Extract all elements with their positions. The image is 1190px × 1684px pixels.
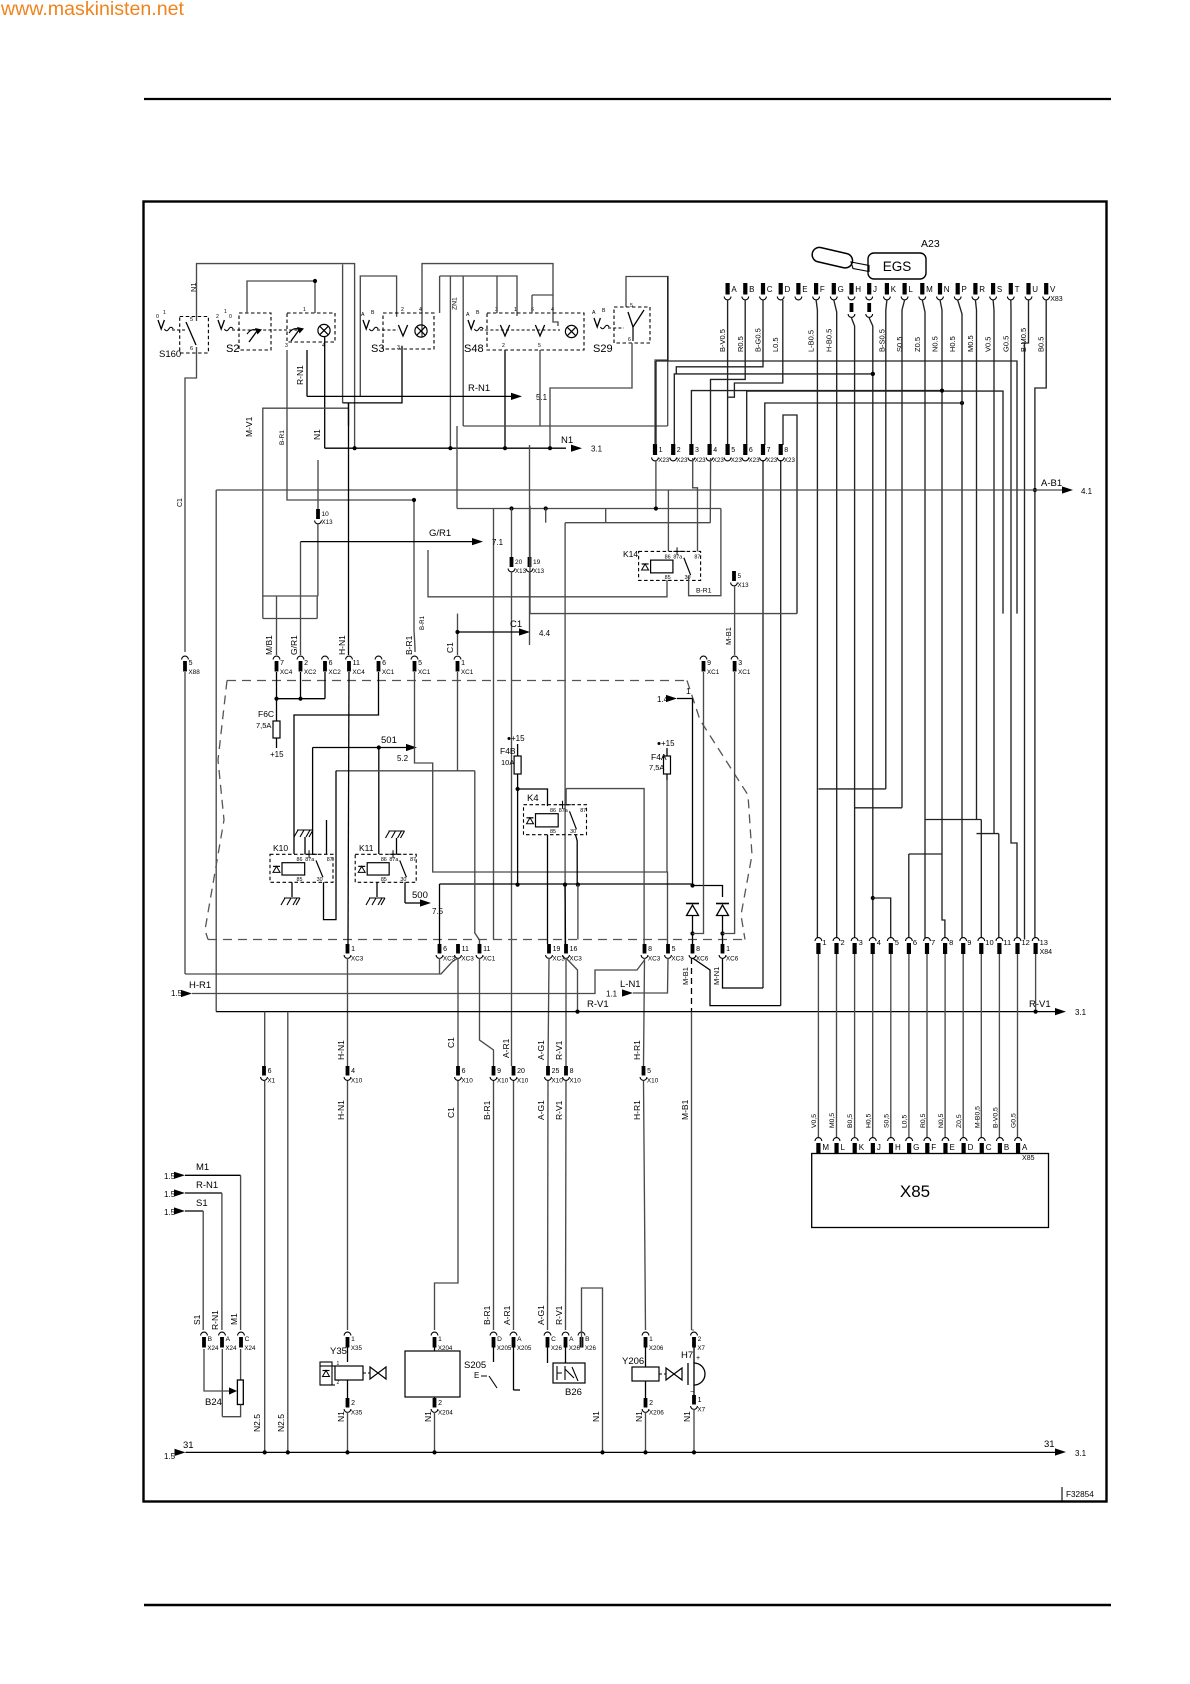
svg-text:1: 1	[514, 307, 517, 313]
svg-text:M-V1: M-V1	[244, 416, 254, 437]
relay K10	[270, 854, 333, 882]
svg-text:2: 2	[351, 1400, 355, 1407]
connector pin 16/XC3	[564, 944, 568, 954]
svg-text:S205: S205	[464, 1360, 486, 1371]
lamp in S3	[415, 325, 427, 337]
svg-text:XC2: XC2	[328, 669, 341, 676]
svg-text:N0,5: N0,5	[938, 1113, 945, 1128]
connector pin 11/XC3	[456, 944, 460, 954]
connector pin 1/XC3	[346, 944, 350, 954]
svg-text:L0,5: L0,5	[902, 1115, 909, 1128]
connector pin A/X24	[219, 1332, 226, 1335]
wire ZN1 drop	[449, 276, 451, 448]
K11-30 wire to 500 arrow	[404, 882, 406, 903]
svg-text:X88: X88	[188, 669, 200, 676]
svg-text:X13: X13	[322, 519, 334, 526]
wire R-N1 from S2	[306, 350, 308, 396]
svg-text:M-B1: M-B1	[681, 967, 690, 985]
dashed link line S2	[232, 329, 300, 331]
wire X23-8 fed from fan line 415	[783, 415, 797, 614]
svg-text:2: 2	[401, 307, 404, 313]
switch S160	[158, 320, 164, 329]
svg-text:1.5: 1.5	[164, 1172, 176, 1181]
connector pin 8/XC3	[643, 944, 647, 954]
svg-text:1: 1	[351, 946, 355, 953]
connector pin 5/XC1	[411, 656, 418, 659]
svg-text:19: 19	[533, 559, 541, 566]
dashed boundary box top edge	[227, 680, 600, 682]
svg-text:R0,5: R0,5	[920, 1113, 927, 1128]
svg-text:16: 16	[570, 946, 578, 953]
svg-text:7.1: 7.1	[492, 538, 504, 547]
svg-text:87a: 87a	[673, 554, 682, 560]
svg-text:2: 2	[438, 1400, 442, 1407]
svg-text:N2.5: N2.5	[276, 1414, 286, 1432]
svg-text:1.1: 1.1	[606, 990, 618, 999]
riser 457 from 426 line	[456, 426, 458, 509]
svg-text:X7: X7	[697, 1407, 705, 1414]
svg-text:A-R1: A-R1	[502, 1305, 512, 1325]
connector pin 9/X10	[492, 1066, 496, 1076]
svg-text:XC3: XC3	[461, 956, 474, 963]
svg-text:X13: X13	[533, 568, 545, 575]
svg-text:Z0.5: Z0.5	[913, 337, 922, 352]
svg-text:XC4: XC4	[352, 669, 365, 676]
relay K11	[355, 854, 416, 882]
svg-text:G0,5: G0,5	[1011, 1113, 1018, 1128]
wire X23-1 fed	[655, 361, 657, 445]
svg-text:Z0,5: Z0,5	[956, 1114, 963, 1128]
wire K4-30 down	[576, 835, 578, 886]
wire R-V1 to X26-A	[565, 1081, 568, 1330]
wires down to X24	[240, 1175, 242, 1330]
svg-text:L: L	[908, 285, 913, 294]
svg-text:L: L	[841, 1143, 846, 1152]
step 833 to X84-11	[977, 833, 999, 835]
connector X23 pin row	[653, 444, 657, 455]
K10-30 loop	[324, 771, 337, 920]
svg-text:J: J	[873, 285, 877, 294]
svg-text:X26: X26	[585, 1345, 597, 1352]
switch S29 dashed box	[614, 307, 650, 343]
wire S3-3 drop to H-N1	[343, 346, 402, 403]
wire S48 stub6	[531, 295, 533, 313]
svg-text:86: 86	[550, 808, 556, 814]
title block separator	[1061, 1487, 1063, 1502]
wire X23-1 drop to dot rail	[655, 460, 657, 509]
wire upper link row2 right to S29 and X23-1	[626, 277, 668, 446]
valve symbol Y206	[666, 1368, 682, 1380]
wire C1 net to 4.4	[457, 614, 459, 655]
svg-text:X23: X23	[658, 457, 670, 464]
wire H-N1 XC4-11 to XC3-1	[348, 672, 349, 944]
svg-text:7,5A: 7,5A	[649, 763, 664, 772]
wire F4B to K4-86	[518, 789, 548, 806]
svg-text:4: 4	[351, 1068, 355, 1075]
svg-text:M-B1: M-B1	[724, 627, 733, 645]
svg-text:X13: X13	[738, 582, 750, 589]
svg-text:87: 87	[580, 808, 586, 814]
svg-text:XC1: XC1	[483, 956, 496, 963]
svg-text:H0.5: H0.5	[948, 336, 957, 352]
svg-text:10: 10	[985, 938, 993, 947]
svg-text:30: 30	[570, 829, 576, 835]
svg-text:8: 8	[784, 447, 788, 454]
svg-text:X85: X85	[900, 1182, 930, 1201]
wire XC6-1 path up at 763	[723, 958, 764, 988]
connector pin 11/XC4	[346, 656, 353, 659]
wire 493 column down	[493, 509, 495, 940]
sensor B26	[553, 1363, 585, 1383]
wire X13-19 down stub	[529, 572, 531, 645]
svg-text:H-R1: H-R1	[632, 1040, 642, 1060]
svg-text:M/B1: M/B1	[264, 635, 274, 655]
wire S205 to ground bus	[434, 1412, 436, 1452]
wire X83-T to X84-12	[1011, 300, 1017, 938]
wire B-R1 to X205-D	[493, 1081, 495, 1330]
svg-text:X10: X10	[569, 1078, 581, 1085]
connector X84 pin row	[815, 938, 822, 941]
svg-text:5: 5	[731, 447, 735, 454]
svg-text:B-R1: B-R1	[696, 588, 712, 595]
svg-text:K: K	[891, 285, 897, 294]
svg-text:S0.5: S0.5	[895, 337, 904, 352]
svg-text:4: 4	[419, 307, 422, 313]
ground above K11	[386, 831, 405, 838]
svg-text:X23: X23	[676, 457, 688, 464]
svg-text:B-V0.5: B-V0.5	[718, 329, 727, 352]
svg-text:X23: X23	[749, 457, 761, 464]
svg-text:X204: X204	[438, 1410, 453, 1417]
svg-text:A-G1: A-G1	[536, 1040, 546, 1060]
svg-text:87: 87	[410, 857, 416, 863]
wire N1 lamp drop S2	[324, 336, 326, 448]
wire F4A down to rail 873	[666, 780, 668, 872]
svg-text:87: 87	[694, 554, 700, 560]
switch S2 selector symbol	[218, 320, 224, 329]
svg-text:X85: X85	[1022, 1155, 1035, 1162]
K10 ground stem	[291, 882, 293, 897]
wire X88 line to XC3-11	[185, 958, 458, 974]
svg-text:H-N1: H-N1	[336, 1100, 346, 1120]
svg-text:5: 5	[895, 938, 899, 947]
svg-text:N1: N1	[561, 435, 573, 446]
svg-text:3: 3	[285, 343, 288, 349]
wire junction S2 lamp top	[313, 279, 317, 283]
svg-text:N1: N1	[682, 1411, 692, 1422]
svg-text:K14: K14	[623, 549, 638, 559]
connector pin 20/X13	[510, 557, 514, 567]
wire under D1	[692, 916, 694, 945]
svg-text:F: F	[931, 1143, 936, 1152]
svg-text:85: 85	[550, 829, 556, 835]
svg-text:H-R1: H-R1	[189, 980, 211, 991]
svg-text:C: C	[551, 1336, 556, 1343]
wire G/R1 vertical	[300, 542, 302, 596]
connector pin 1/XC6	[721, 944, 725, 954]
wire N2.5 right leg	[287, 1012, 289, 1452]
wire X23-7 fed from fan line 403	[765, 403, 962, 445]
svg-text:G0.5: G0.5	[1001, 336, 1010, 352]
svg-text:K10: K10	[273, 843, 288, 853]
wire B-R1 from S2 down	[287, 350, 415, 652]
svg-text:B-R1: B-R1	[419, 615, 426, 630]
svg-text:86: 86	[296, 857, 302, 863]
svg-text:2: 2	[698, 1336, 702, 1343]
svg-text:3: 3	[397, 345, 400, 351]
ground under K11	[366, 898, 385, 905]
svg-text:H: H	[855, 285, 861, 294]
dashed boundary box bottom edge	[208, 939, 745, 941]
wire X83-K ends at step 789	[886, 300, 887, 789]
wire X13-20 down to X10-20	[511, 572, 513, 1066]
connector pin A/X205	[510, 1332, 517, 1335]
relay K4	[524, 805, 587, 835]
diagram frame	[144, 202, 1107, 1502]
svg-text:9: 9	[967, 938, 971, 947]
svg-text:6: 6	[913, 938, 917, 947]
wire X24-A down	[221, 1349, 223, 1417]
svg-text:X23: X23	[784, 457, 796, 464]
svg-text:N1: N1	[189, 282, 198, 292]
svg-text:XC3: XC3	[648, 956, 661, 963]
svg-text:3.1: 3.1	[591, 445, 603, 454]
svg-text:11: 11	[462, 946, 469, 953]
wire S48-2 drop to N1	[504, 350, 506, 448]
svg-text:R0.5: R0.5	[736, 336, 745, 352]
svg-text:B: B	[749, 285, 754, 294]
svg-text:5: 5	[647, 1068, 651, 1075]
switch S29 selector symbol	[594, 318, 600, 327]
svg-text:R-N1: R-N1	[210, 1310, 220, 1330]
svg-text:S1: S1	[192, 1314, 202, 1325]
connector pin C/X26	[544, 1332, 551, 1335]
svg-text:D: D	[785, 285, 791, 294]
svg-text:M1: M1	[229, 1313, 239, 1325]
svg-text:6: 6	[443, 946, 447, 953]
svg-text:XC1: XC1	[707, 669, 720, 676]
svg-text:30: 30	[400, 877, 406, 883]
svg-text:S0,5: S0,5	[884, 1114, 891, 1128]
wire XC3-16 to R-V1 rail	[566, 958, 578, 1012]
wire left tie A-B1 to R-V1 rail	[215, 490, 217, 1012]
small box above M/B1 G/R1 wires	[263, 596, 317, 619]
svg-text:R-N1: R-N1	[196, 1180, 218, 1191]
svg-text:K4: K4	[527, 793, 539, 804]
wire Y35 to ground bus	[347, 1412, 349, 1452]
step 819 to X84-10	[925, 819, 981, 821]
wire X83-G to X84-2	[834, 300, 837, 938]
wire under D2	[722, 916, 724, 945]
dashed boundary box right meander	[687, 681, 752, 940]
svg-text:5: 5	[190, 317, 193, 323]
wire A-B1 branch to K14-86	[667, 490, 669, 551]
wire X83-P to X84-9	[958, 300, 962, 938]
svg-text:X10: X10	[517, 1078, 529, 1085]
svg-text:M1: M1	[196, 1162, 209, 1173]
inline connector stub under X83-H	[850, 303, 854, 312]
svg-text:A: A	[361, 312, 365, 318]
wire M-N1 path from XC6-8	[693, 958, 781, 1006]
wire X24-C into B24	[240, 1349, 242, 1380]
wire 501 drop to K11	[378, 748, 380, 855]
wire A-G1 to X26-C	[547, 1081, 550, 1330]
svg-text:A-B1: A-B1	[1041, 478, 1062, 489]
connector pin 25/X10	[546, 1066, 550, 1076]
svg-text:20: 20	[517, 1068, 525, 1075]
svg-text:11: 11	[353, 660, 360, 667]
svg-text:B-R1: B-R1	[482, 1100, 492, 1120]
wire X83-R ends at step 819	[975, 300, 976, 820]
svg-text:M0,5: M0,5	[829, 1113, 836, 1128]
svg-text:X23: X23	[766, 457, 778, 464]
svg-text:8: 8	[696, 946, 700, 953]
svg-text:4: 4	[551, 307, 554, 313]
svg-text:31: 31	[1044, 1439, 1055, 1450]
dashed link S3	[377, 329, 398, 331]
connector pin 7/XC4	[273, 656, 280, 659]
svg-text:86: 86	[665, 554, 671, 560]
svg-text:A: A	[1022, 1143, 1028, 1152]
switch S48 dashed box	[487, 313, 584, 350]
S205 box	[405, 1351, 460, 1397]
svg-text:M-B0,5: M-B0,5	[974, 1106, 981, 1128]
wire tie XC4-7 XC2-2 XC2-6	[277, 698, 326, 700]
svg-text:X10: X10	[647, 1078, 659, 1085]
svg-text:N1: N1	[336, 1411, 346, 1422]
connector pin B/X24	[201, 1332, 208, 1335]
svg-text:1: 1	[726, 946, 730, 953]
svg-text:10: 10	[322, 511, 330, 518]
svg-text:87a: 87a	[389, 857, 398, 863]
svg-text:H-B0.5: H-B0.5	[824, 329, 833, 352]
svg-text:A-G1: A-G1	[536, 1305, 546, 1325]
svg-text:4: 4	[877, 938, 881, 947]
K11 ground stem	[376, 882, 378, 897]
svg-text:+: +	[696, 1355, 700, 1362]
svg-text:F6C: F6C	[258, 709, 274, 719]
svg-text:11: 11	[483, 946, 490, 953]
wires M/B1 G/R1 through box to pins	[276, 596, 278, 655]
svg-text:2: 2	[649, 1400, 653, 1407]
svg-text:B: B	[585, 1336, 590, 1343]
wire XC1-3 to D2 bottom	[723, 672, 735, 934]
svg-text:X205: X205	[517, 1345, 532, 1352]
svg-text:B-R1: B-R1	[482, 1305, 492, 1325]
wire S48 stub3	[496, 276, 498, 313]
connector pin 1/X206	[642, 1332, 649, 1335]
switch S2 box2 with lamp	[287, 313, 335, 342]
svg-text:N1: N1	[634, 1411, 644, 1422]
svg-text:F4A: F4A	[651, 752, 667, 762]
svg-text:B0,5: B0,5	[847, 1114, 854, 1128]
wire X83-A down to X23-5	[727, 300, 729, 445]
wire XC3-19 to X10-25	[548, 958, 549, 1066]
svg-text:X23: X23	[695, 457, 707, 464]
svg-text:19: 19	[553, 946, 561, 953]
tie 545 to rail 522	[545, 509, 547, 523]
svg-text:3.1: 3.1	[1075, 1008, 1087, 1017]
svg-text:3.1: 3.1	[1075, 1449, 1087, 1458]
svg-text:B: B	[208, 1336, 213, 1343]
dashed link S29	[608, 327, 624, 329]
svg-text:12: 12	[1022, 938, 1030, 947]
wire X205 stubs	[493, 1347, 495, 1362]
svg-text:X206: X206	[649, 1345, 664, 1352]
wire X83-F to X84-1	[816, 300, 817, 938]
svg-text:1: 1	[659, 447, 663, 454]
svg-text:B: B	[476, 310, 480, 316]
rail y771 from K10 loop to XC1-11 column	[336, 770, 475, 772]
wire X13-19 up	[529, 445, 531, 557]
wire S48-5 drop	[539, 350, 541, 426]
tie 605 to rail 522	[605, 509, 607, 523]
svg-text:R-N1: R-N1	[468, 383, 490, 394]
svg-text:XC1: XC1	[461, 669, 474, 676]
svg-text:7: 7	[767, 447, 771, 454]
svg-text:B24: B24	[205, 1397, 222, 1408]
wire X83-D elbow to X23-5 join	[728, 300, 783, 397]
connector pin 5/XC3	[666, 944, 670, 954]
svg-text:N1: N1	[591, 1411, 601, 1422]
svg-text:R: R	[979, 285, 985, 294]
connector pin 4/X10	[346, 1066, 350, 1076]
wire XC1-6 loop to K10 coil	[294, 672, 379, 854]
svg-text:R-V1: R-V1	[554, 1040, 564, 1060]
svg-text:N: N	[944, 285, 950, 294]
wires X23 pins7-8 continue to M-N1 nets	[762, 460, 764, 988]
svg-text:X13: X13	[515, 568, 527, 575]
wire rail up from fan to switch rail	[667, 277, 669, 362]
wire M-B1 dashed from XC6-8	[691, 958, 693, 1012]
svg-text:1: 1	[822, 938, 826, 947]
svg-text:501: 501	[381, 735, 397, 746]
diode D1	[686, 903, 699, 905]
fan line y361 long horizontal	[656, 361, 1017, 614]
svg-text:ZN1: ZN1	[452, 297, 459, 310]
svg-text:86: 86	[381, 857, 387, 863]
svg-text:M-N1: M-N1	[712, 967, 721, 985]
svg-text:C: C	[986, 1143, 992, 1152]
svg-text:X205: X205	[497, 1345, 512, 1352]
switch S2 box1	[239, 313, 271, 350]
svg-text:6: 6	[749, 447, 753, 454]
wire XC3-6 down	[439, 958, 441, 974]
svg-text:R-V1: R-V1	[587, 999, 609, 1010]
wire X88-5 down the left side	[184, 672, 186, 974]
valve symbol Y35	[370, 1367, 386, 1379]
wire X83-H to X84-3	[852, 318, 855, 938]
svg-text:G: G	[838, 285, 844, 294]
wire L-N1 from XC3-5	[633, 958, 668, 993]
svg-text:A: A	[731, 285, 737, 294]
switch S3 selector symbol	[363, 320, 369, 329]
connector X85 box	[812, 1154, 1049, 1228]
svg-text:3: 3	[859, 938, 863, 947]
svg-text:XC1: XC1	[738, 669, 751, 676]
svg-text:E: E	[949, 1143, 954, 1152]
svg-text:H7: H7	[681, 1350, 693, 1361]
svg-text:7,5A: 7,5A	[256, 721, 271, 730]
wire B-R1 path XC1-5 to rail 872	[415, 672, 668, 944]
svg-text:X24: X24	[225, 1345, 237, 1352]
wire X83-J to X84-4 with branch to pin5	[869, 318, 873, 938]
svg-text:31: 31	[183, 1440, 194, 1451]
connector pin 8/X10	[564, 1066, 568, 1076]
connector X85 pin row	[815, 1138, 822, 1141]
wire R-V1 horizontal	[216, 1011, 1056, 1013]
wire upper link row2 left	[360, 276, 396, 396]
